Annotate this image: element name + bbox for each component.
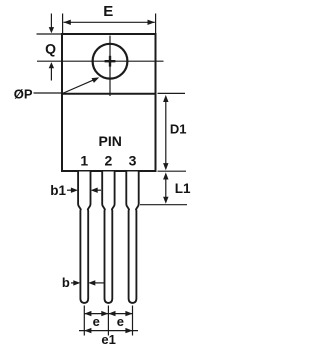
lead 3 (pin 3): [126, 172, 138, 303]
E dimension line with arrows: [64, 21, 155, 23]
tab/body boundary line: [62, 93, 156, 95]
svg-text:2: 2: [105, 152, 113, 168]
mounting hole centerline horizontal: [37, 60, 164, 62]
e dimension line with arrows: [84, 313, 132, 315]
svg-text:e: e: [117, 314, 124, 329]
E dimension extension line right: [155, 14, 157, 34]
svg-text:b1: b1: [50, 183, 66, 198]
top edge extension line (left, for Q): [37, 33, 62, 35]
E dimension extension line left: [62, 14, 64, 34]
svg-text:D1: D1: [170, 121, 187, 136]
lead 1 (pin 1): [78, 172, 90, 303]
lead shoulder extension line (L1 bottom ref): [140, 204, 187, 206]
lead tip extension line 3: [132, 306, 134, 336]
b1 dimension arrows (lead 1 wide width): [67, 189, 72, 191]
svg-text:e: e: [93, 314, 100, 329]
OP leader arrowhead: [92, 77, 100, 83]
body bottom extension line right (D1/L1 ref): [158, 170, 187, 172]
svg-text:E: E: [103, 3, 113, 20]
OP leader line: [34, 92, 64, 94]
lead tip extension line 2: [107, 306, 109, 336]
svg-text:3: 3: [129, 152, 137, 168]
Q dimension down arrow: [50, 14, 52, 28]
L1 dimension arrows: [163, 172, 168, 179]
svg-text:1: 1: [80, 152, 88, 168]
D1 dimension arrows: [163, 95, 168, 102]
svg-text:Q: Q: [45, 41, 56, 57]
b dimension arrows (lead 1 narrow width): [71, 282, 74, 284]
svg-text:ØP: ØP: [14, 86, 33, 101]
lead 2 (pin 2): [102, 172, 114, 303]
mounting hole centerline vertical: [109, 36, 111, 96]
svg-text:L1: L1: [175, 181, 191, 196]
hole center cross: [105, 60, 116, 62]
svg-text:b: b: [62, 275, 70, 290]
lead tip extension line 1: [83, 306, 85, 336]
package body outline (tab + molded body rectangle): [62, 34, 156, 171]
svg-text:e1: e1: [101, 332, 115, 347]
svg-text:PIN: PIN: [99, 133, 122, 149]
mounting hole circle: [93, 44, 128, 79]
Q dimension up arrow: [49, 62, 54, 68]
e1 dimension line with arrows: [79, 330, 138, 332]
boundary extension line right (D1 top ref): [158, 92, 186, 94]
